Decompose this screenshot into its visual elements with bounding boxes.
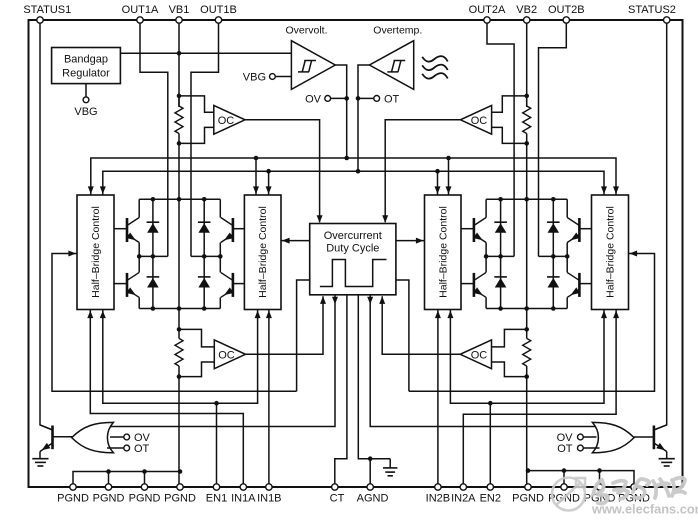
wire PGND riser <box>599 471 601 487</box>
svg-text:OV: OV <box>305 93 322 105</box>
resistor sense lower-left <box>178 329 180 338</box>
op-amp OC lower-right <box>460 340 491 369</box>
net EN1 <box>103 310 258 404</box>
svg-text:Overtemp.: Overtemp. <box>373 25 422 37</box>
arrow OT into HB4 <box>601 186 607 194</box>
resistor sense upper-left <box>175 106 183 134</box>
svg-text:PGND: PGND <box>512 493 544 505</box>
wire right gate output to base <box>634 436 654 438</box>
junction AGND <box>368 456 373 461</box>
svg-text:Regulator: Regulator <box>62 68 110 80</box>
arrow OC LR into OCDC bottom <box>379 296 385 304</box>
transistor status1 <box>51 426 54 450</box>
wire OC LL output to OCDC <box>246 296 324 354</box>
resistor sense upper-right <box>523 106 531 134</box>
junction rail <box>202 197 207 202</box>
branch OT to HB3 <box>435 169 440 174</box>
transistor Q1 upper-left <box>126 218 129 242</box>
junction PGND bus <box>142 469 147 474</box>
pin PGND <box>525 484 531 490</box>
wire OC UR input top <box>492 96 527 112</box>
wire OCDC fault to left OR gate <box>111 295 336 427</box>
svg-text:OUT2B: OUT2B <box>548 4 585 16</box>
junction PGND bus <box>526 468 531 473</box>
branch OV to HB2 <box>254 156 259 161</box>
junction rail <box>551 306 556 311</box>
svg-text:OC: OC <box>218 349 235 361</box>
wire bandgap output to overvoltage comparator <box>120 52 291 54</box>
svg-text:VB1: VB1 <box>169 4 190 16</box>
arrow IN2B into HB3 <box>435 311 441 319</box>
junction mid <box>218 254 223 259</box>
svg-text:Half–Bridge Control: Half–Bridge Control <box>437 206 449 298</box>
net OV distribution line <box>91 158 616 195</box>
ground AGND symbol <box>389 459 391 468</box>
watermark logo <box>552 478 585 511</box>
wire OCDC fault to right OR gate <box>370 295 596 427</box>
junction OT stub <box>356 96 361 101</box>
net IN2B <box>437 310 439 488</box>
wire overcurrent line to HB1 <box>52 254 297 392</box>
net OT distribution line <box>103 171 604 195</box>
svg-text:OC: OC <box>471 115 488 127</box>
wire OCDC to HB2 <box>281 240 310 242</box>
terminal VBG input of overvolt comparator <box>270 74 276 80</box>
arrow OT into HB3 <box>435 186 441 194</box>
transistor Q7 upper-right <box>578 218 581 242</box>
wire OUT2B to bridge node <box>539 20 567 256</box>
symbol heat waves <box>422 56 448 61</box>
wire VB1 through bridge1 <box>178 143 180 199</box>
pin PGND <box>561 484 567 490</box>
wire sense-1 to PGND <box>178 377 180 487</box>
wire OCDC to HB3 <box>396 240 425 242</box>
wire Q3 emitter <box>219 243 221 257</box>
svg-text:OT: OT <box>134 443 150 455</box>
pin VB1 <box>176 17 182 23</box>
wire Q4 emitter <box>219 297 221 308</box>
arrow IN1B into HB2 <box>266 311 272 319</box>
junction PGND bus <box>562 468 567 473</box>
svg-text:EN2: EN2 <box>480 493 501 505</box>
arrow OV into HB3 <box>446 186 452 194</box>
svg-text:VBG: VBG <box>74 106 97 118</box>
pin STATUS1 <box>37 17 43 23</box>
junction OT line at overtemp <box>356 169 361 174</box>
arrow EN2 into HB3 <box>447 311 453 319</box>
wire Q3 collector <box>219 199 221 217</box>
net IN1A <box>90 310 243 488</box>
arrow EN2 into HB4 <box>601 311 607 319</box>
junction PGND bus <box>597 468 602 473</box>
junction OV stub <box>344 96 349 101</box>
wire OCDC to analog ground <box>358 295 390 459</box>
junction mid <box>484 254 489 259</box>
pin IN2A <box>460 484 466 490</box>
arrow OC UL into OCDC top <box>317 215 323 223</box>
branch OT to HB2 <box>266 169 271 174</box>
arrow OC UR into OCDC top <box>382 215 388 223</box>
wire Q2 collector <box>138 256 140 272</box>
arrow OCDC fault right <box>367 297 373 305</box>
junction mid <box>551 254 556 259</box>
net IN1B <box>268 310 270 488</box>
diode D1 <box>152 199 154 256</box>
svg-text:OUT1B: OUT1B <box>200 4 237 16</box>
junction EN2 pin <box>488 401 493 406</box>
svg-text:PGND: PGND <box>93 493 125 505</box>
pin PGND <box>105 484 111 490</box>
arrow IN1A into HB1 <box>87 311 93 319</box>
pin IN1A <box>240 484 246 490</box>
svg-text:OUT2A: OUT2A <box>469 4 506 16</box>
junction rail <box>177 197 182 202</box>
svg-text:OT: OT <box>557 443 573 455</box>
svg-text:PGND: PGND <box>129 493 161 505</box>
junction sense top LL <box>177 327 182 332</box>
terminal OV left gate <box>110 436 124 438</box>
wire VB2 column <box>526 20 528 107</box>
wire left gate output to base <box>53 436 73 438</box>
wire bridge2 low-side to sense <box>526 309 528 330</box>
terminal OT left gate <box>107 447 124 449</box>
pin OUT1A <box>137 17 143 23</box>
op-amp OC upper-left <box>214 105 245 134</box>
transistor Q5 upper-left <box>473 218 476 242</box>
pin VB2 <box>524 17 530 23</box>
wire OC LR output to OCDC <box>382 296 460 354</box>
pin PGND <box>596 484 602 490</box>
transistor Q4 lower-right <box>232 273 235 297</box>
terminal VBG of bandgap <box>85 84 87 97</box>
transistor Q3 upper-right <box>232 218 235 242</box>
arrow into HB4 right <box>630 251 638 257</box>
pin PGND <box>631 484 637 490</box>
wire OUT1B to bridge node <box>191 20 219 256</box>
junction PGND bus <box>178 469 183 474</box>
diode D4 <box>203 256 205 308</box>
wire CT to OCDC <box>335 295 347 487</box>
wire overtemp output down <box>358 65 369 171</box>
junction rail <box>498 197 503 202</box>
pin OUT1B <box>215 17 221 23</box>
svg-text:Duty Cycle: Duty Cycle <box>326 243 379 255</box>
diode D2 <box>152 256 154 308</box>
svg-text:OC: OC <box>471 349 488 361</box>
block Half-Bridge Control HB2 <box>244 195 281 310</box>
wire bridge2 top rail <box>486 198 567 200</box>
arrow OC LL into OCDC bottom <box>320 296 326 304</box>
svg-text:VB2: VB2 <box>516 4 537 16</box>
wire OC LL input top <box>179 329 214 347</box>
diode D3 <box>203 199 205 256</box>
block Overcurrent Duty Cycle <box>310 224 396 295</box>
wire OC LR input bottom <box>492 362 527 377</box>
svg-text:VBG: VBG <box>243 72 266 84</box>
pin IN1B <box>266 484 272 490</box>
pin IN2B <box>435 484 441 490</box>
wire OC LL input bottom <box>179 362 214 377</box>
svg-text:IN2B: IN2B <box>426 493 450 505</box>
pin OUT2B <box>563 17 569 23</box>
terminal OV right gate <box>583 436 596 438</box>
block Half-Bridge Control HB1 <box>77 195 114 310</box>
svg-text:Bandgap: Bandgap <box>64 54 108 66</box>
wire AGND riser <box>369 459 371 487</box>
svg-text:IN1A: IN1A <box>231 493 256 505</box>
arrow EN1 into HB2 <box>255 311 261 319</box>
junction EN1 pin <box>214 401 219 406</box>
op-amp OC upper-right <box>460 105 491 134</box>
gate OR left <box>72 422 114 452</box>
net EN2 <box>450 310 604 404</box>
wire Q4 collector <box>219 256 221 272</box>
wire OUT2A to bridge node <box>487 20 514 256</box>
wire Q7 emitter <box>566 243 568 257</box>
junction sense top LR <box>524 327 529 332</box>
wire VB1 column <box>178 20 180 107</box>
arrow OCDC fault left <box>332 297 338 305</box>
transistor status2 <box>653 426 656 450</box>
wire OC UR input bottom <box>492 127 527 143</box>
wire bridge2 mid rail left <box>486 255 514 257</box>
pin PGND <box>141 484 147 490</box>
wire OUT1A to bridge node <box>140 20 168 256</box>
junction mid <box>498 254 503 259</box>
svg-text:STATUS2: STATUS2 <box>628 4 676 16</box>
branch OV to HB3 <box>446 156 451 161</box>
junction rail <box>177 306 182 311</box>
arrow OT into HB1 <box>100 186 106 194</box>
wire Q8 collector <box>566 256 568 272</box>
pin PGND <box>177 484 183 490</box>
wire bridge1 mid rail right <box>191 255 220 257</box>
diode D8 <box>552 256 554 308</box>
wire OC UL input bottom <box>179 127 214 143</box>
diode D7 <box>552 199 554 256</box>
pin OUT2A <box>484 17 490 23</box>
arrow into HB3 left <box>416 238 424 244</box>
junction rail <box>498 306 503 311</box>
junction mid <box>565 254 570 259</box>
ground status1 <box>39 452 41 459</box>
junction rail <box>202 306 207 311</box>
junction rail <box>524 306 529 311</box>
arrow EN1 into HB1 <box>100 311 106 319</box>
svg-text:OUT1A: OUT1A <box>122 4 159 16</box>
junction OV line at overvolt <box>344 156 349 161</box>
svg-text:PGND: PGND <box>57 493 89 505</box>
transistor Q2 lower-left <box>126 273 129 297</box>
wire VB2 through bridge2 <box>526 143 528 199</box>
terminal OT <box>374 96 380 102</box>
junction sense top UR <box>524 94 529 99</box>
svg-text:OT: OT <box>384 93 400 105</box>
arrow OT into HB2 <box>266 186 272 194</box>
wire overcurrent line to HB4 <box>409 254 655 392</box>
junction rail <box>524 197 529 202</box>
wire Q8 emitter <box>566 297 568 308</box>
junction PGND bus <box>106 469 111 474</box>
wire Q2 emitter <box>138 297 140 308</box>
svg-text:www.elecfans.com: www.elecfans.com <box>591 502 698 517</box>
wire OC UL input top <box>179 96 214 112</box>
resistor sense lower-right <box>526 329 528 338</box>
junction mid <box>137 254 142 259</box>
wire bridge1 bottom rail <box>139 308 220 310</box>
pin PGND <box>70 484 76 490</box>
svg-text:CT: CT <box>330 493 345 505</box>
wire bridge1 mid rail left <box>139 255 168 257</box>
svg-text:PGND: PGND <box>164 493 196 505</box>
wire PGND riser <box>563 471 565 487</box>
wire bridge1 low-side to sense <box>178 309 180 330</box>
arrow OV into HB4 <box>613 186 619 194</box>
junction rail <box>151 306 156 311</box>
wire Q6 emitter <box>485 297 487 308</box>
terminal OT right gate <box>583 447 599 449</box>
junction rail <box>151 197 156 202</box>
pin STATUS2 <box>664 17 670 23</box>
wire Q6 collector <box>485 256 487 272</box>
arrow OV into HB2 <box>253 186 259 194</box>
net IN2A <box>463 310 616 488</box>
pin AGND <box>367 484 373 490</box>
svg-text:STATUS1: STATUS1 <box>23 4 71 16</box>
junction sense bottom UR <box>524 141 529 146</box>
svg-text:EN1: EN1 <box>206 493 227 505</box>
wire Q1 collector <box>138 199 140 217</box>
pin EN1 <box>213 484 219 490</box>
ground status2 <box>666 452 668 459</box>
block Half-Bridge Control HB3 <box>425 195 462 310</box>
junction sense bottom LL <box>177 374 182 379</box>
diode D6 <box>500 256 502 308</box>
svg-text:Half–Bridge Control: Half–Bridge Control <box>605 206 617 298</box>
svg-text:Overcurrent: Overcurrent <box>324 230 382 242</box>
junction sense top UL <box>177 94 182 99</box>
wire STATUS2 to transistor collector <box>654 20 667 430</box>
arrow into HB2 right <box>282 238 290 244</box>
wire sense-2 to PGND <box>526 377 528 487</box>
wire OC UL output to OCDC <box>245 120 320 223</box>
wire EN1 pin riser <box>216 403 218 487</box>
wire OC LR input top <box>492 329 527 347</box>
svg-text:OC: OC <box>218 115 235 127</box>
block Half-Bridge Control HB4 <box>592 195 629 310</box>
junction sense bottom UL <box>177 141 182 146</box>
wire PGND riser <box>108 472 110 488</box>
svg-text:IN1B: IN1B <box>257 493 281 505</box>
diode D5 <box>500 199 502 256</box>
wire Q5 emitter <box>485 243 487 257</box>
gate OR right <box>592 422 634 452</box>
transistor Q8 lower-right <box>578 273 581 297</box>
watermark calligraphy <box>593 478 685 504</box>
svg-text:IN2A: IN2A <box>451 493 476 505</box>
junction sense bottom LR <box>524 374 529 379</box>
wire bridge2 mid rail right <box>539 255 568 257</box>
wire OCDC left feedback <box>297 280 310 391</box>
wire bridge1 top rail <box>139 198 220 200</box>
wire overvolt output down <box>335 65 346 158</box>
wire Q1 emitter <box>138 243 140 257</box>
arrow into HB1 left <box>68 251 76 257</box>
svg-text:Half–Bridge Control: Half–Bridge Control <box>257 206 269 298</box>
block Bandgap Regulator <box>52 48 121 84</box>
wire STATUS1 to transistor collector <box>40 20 53 430</box>
arrow IN2A into HB4 <box>613 311 619 319</box>
junction mid <box>202 254 207 259</box>
bus PGND right <box>528 471 634 487</box>
bus PGND left <box>73 472 180 488</box>
wire OCDC right feedback <box>396 280 409 391</box>
junction mid <box>151 254 156 259</box>
arrow OV into HB1 <box>88 186 94 194</box>
pin CT <box>332 484 338 490</box>
transistor Q6 lower-left <box>473 273 476 297</box>
wire Q5 collector <box>485 199 487 217</box>
wire PGND riser <box>144 472 146 488</box>
wire bridge2 bottom rail <box>486 308 567 310</box>
svg-text:Overvolt.: Overvolt. <box>285 25 327 37</box>
junction rail <box>551 197 556 202</box>
op-amp OC lower-left <box>214 340 245 369</box>
svg-text:Half–Bridge Control: Half–Bridge Control <box>90 206 102 298</box>
wire Q7 collector <box>566 199 568 217</box>
svg-text:AGND: AGND <box>357 493 389 505</box>
wire EN2 pin riser <box>489 403 491 487</box>
pin EN2 <box>487 484 493 490</box>
wire OC UR output to OCDC <box>385 120 460 223</box>
junction VB1 bandgap line <box>177 51 182 56</box>
